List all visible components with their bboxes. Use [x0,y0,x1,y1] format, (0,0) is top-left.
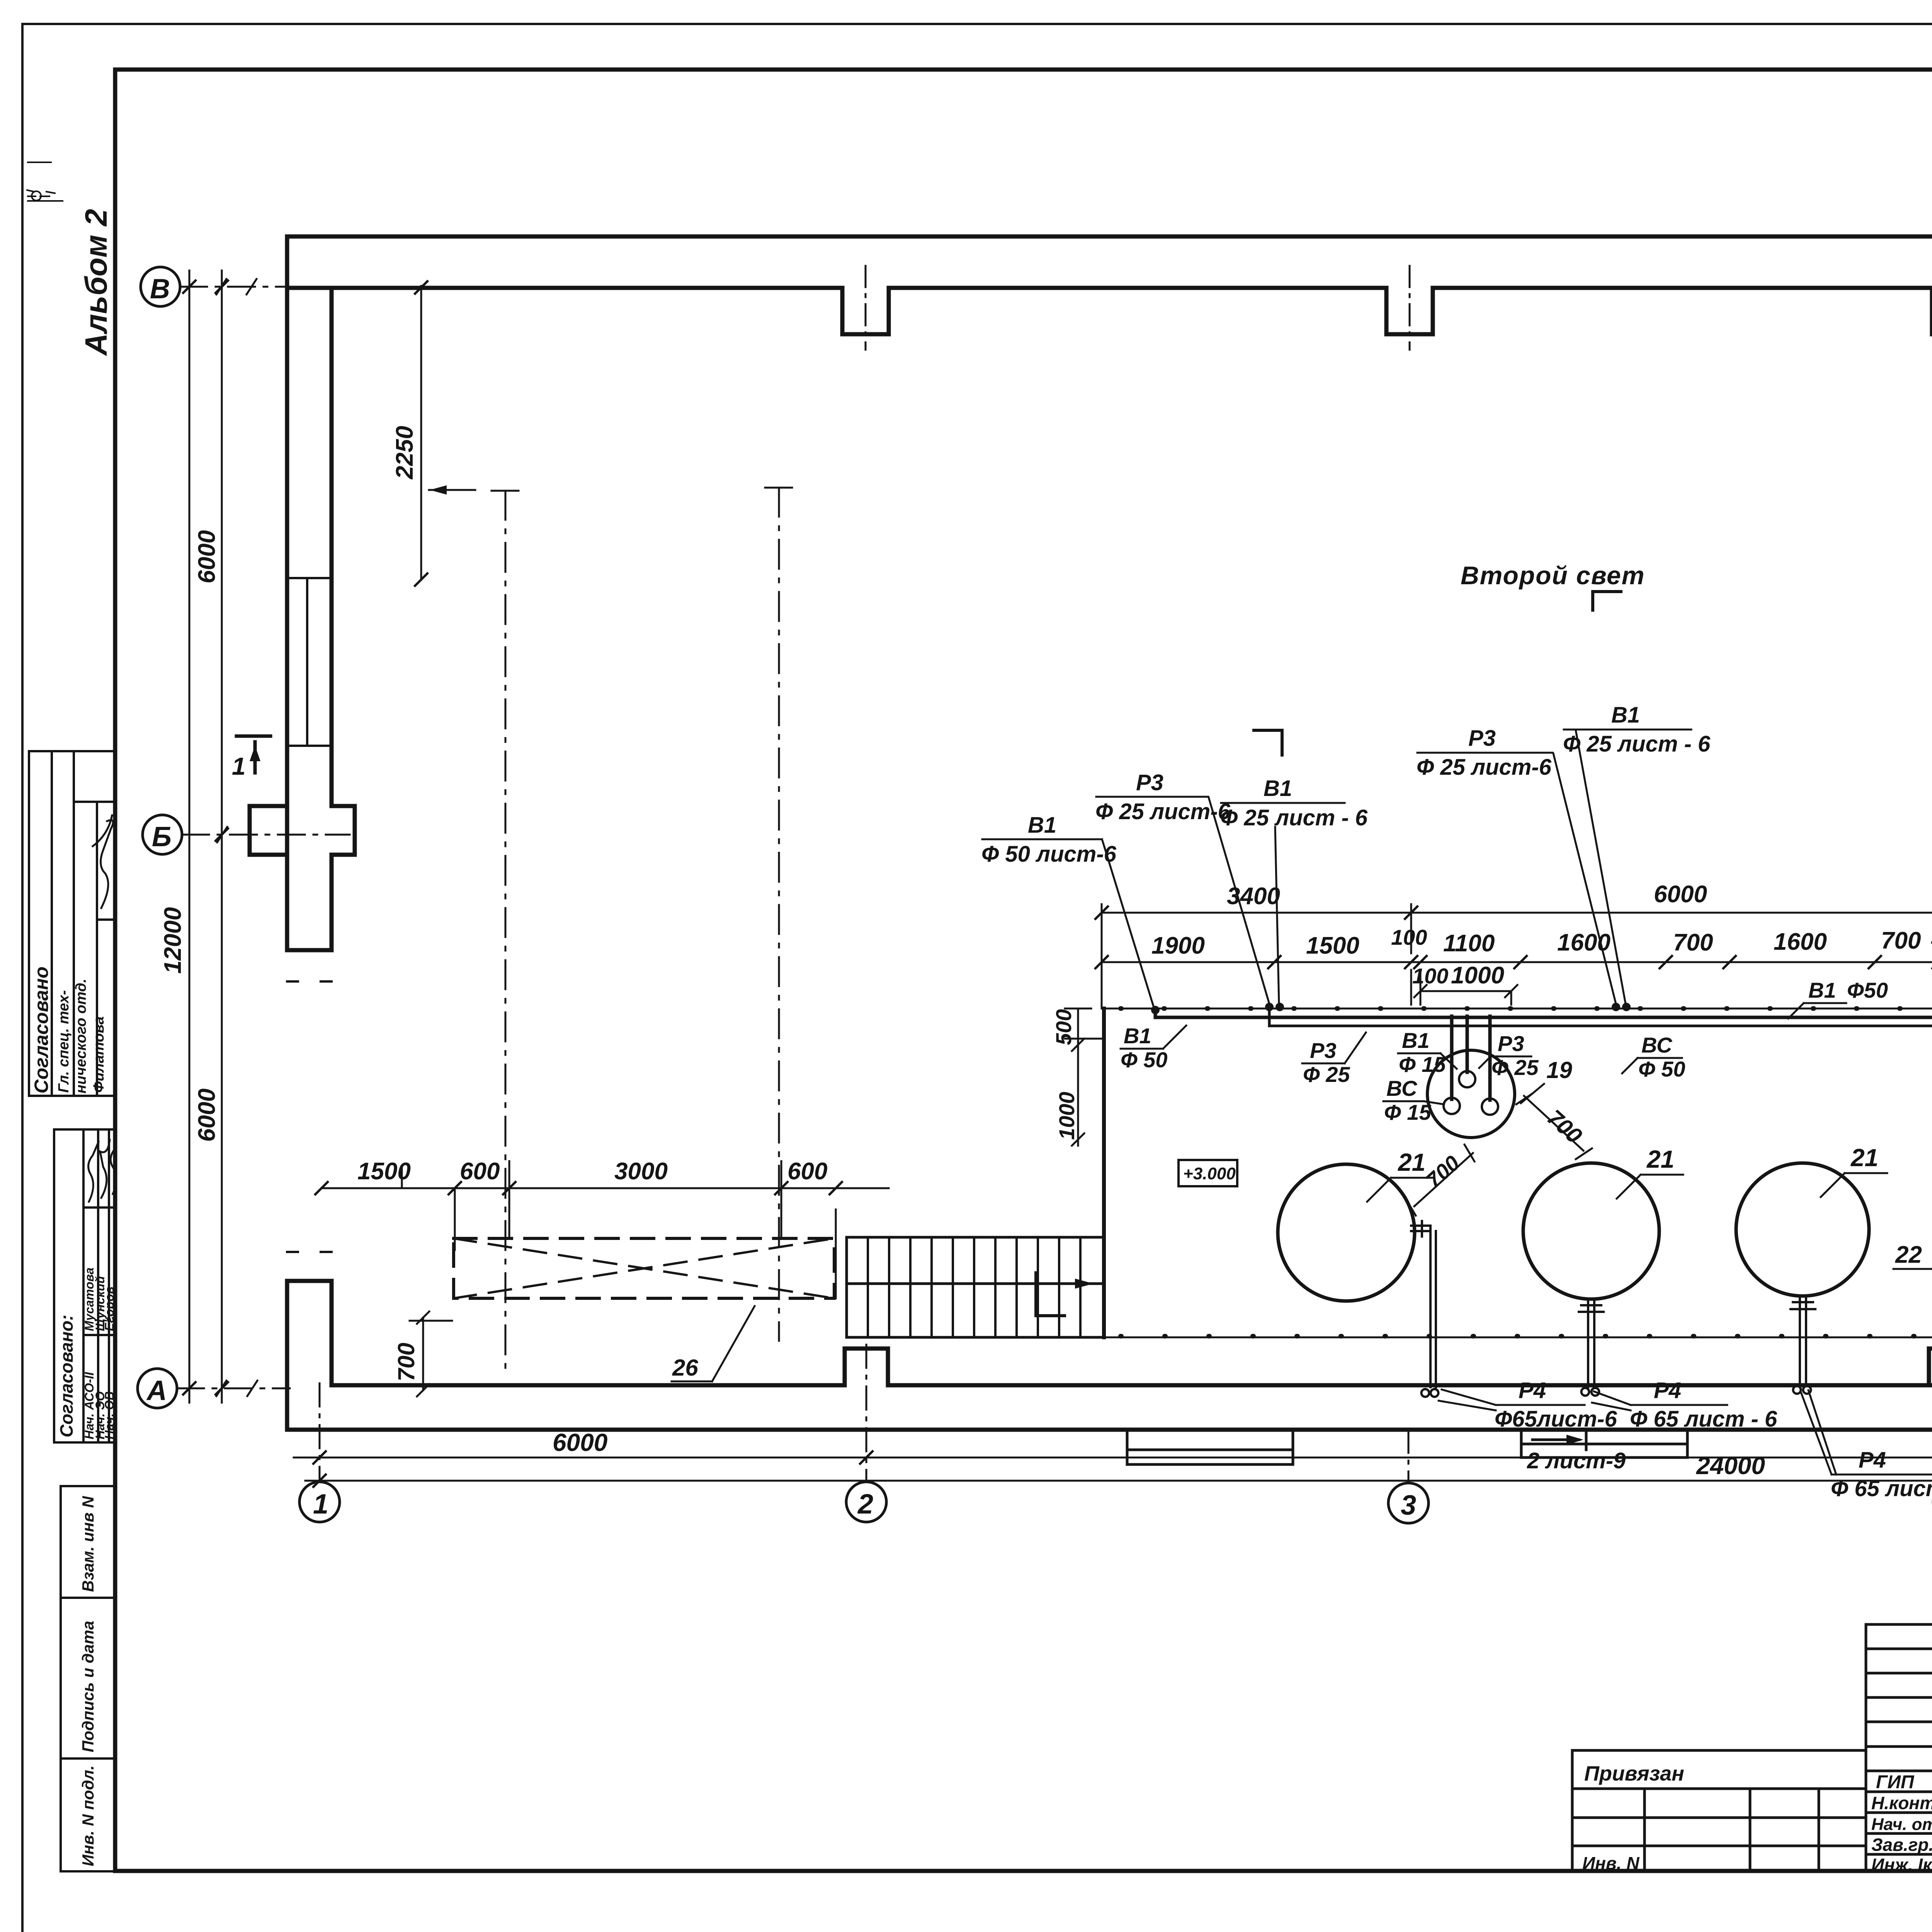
svg-text:Ф 25 лист-6: Ф 25 лист-6 [1417,755,1552,780]
dashed platform 26 [454,1238,834,1298]
tank2 drain pipe [1579,1299,1604,1387]
svg-text:600: 600 [460,1158,500,1185]
svg-text:26: 26 [672,1355,698,1381]
svg-text:Нач. ОВ: Нач. ОВ [102,1391,116,1439]
svg-text:6000: 6000 [194,530,220,583]
svg-text:Ф50: Ф50 [1847,978,1888,1002]
level mark +3.000 [1179,1160,1237,1186]
small left arrow near centerlines [429,489,475,491]
margin stamp table B (Согласовано: Нач...) [54,1129,115,1442]
svg-text:Ф 50: Ф 50 [1121,1048,1168,1072]
svg-text:500: 500 [1051,1009,1076,1045]
svg-text:Ф 65 лист - 6: Ф 65 лист - 6 [1630,1406,1777,1432]
leader pair center [1553,730,1626,1004]
svg-text:1: 1 [313,1489,328,1520]
title block: signature grid [1866,1624,1932,1871]
pipe B1-50 along wall [1155,1009,1932,1017]
svg-text:Согласовано: Согласовано [31,966,52,1094]
axis circle В [141,267,180,306]
svg-text:700: 700 [393,1343,419,1381]
room bottom edge dots [1121,1334,1932,1338]
west pilaster at Б (inner) [332,806,355,855]
signature scribble A [93,815,113,908]
svg-text:700: 700 [1881,927,1921,954]
section mark 1 (left) [236,736,270,773]
svg-text:В1: В1 [1402,1028,1430,1053]
svg-text:Инв. N: Инв. N [1582,1853,1639,1873]
svg-text:нического отд.: нического отд. [73,979,89,1094]
svg-text:Ф65лист-6: Ф65лист-6 [1495,1406,1617,1432]
svg-text:В1: В1 [1028,813,1056,838]
grease trap 19 [1427,1050,1515,1138]
axis circle А [138,1369,177,1408]
pipe P3-25 along wall [1269,1009,1932,1026]
svg-text:Ф 15: Ф 15 [1399,1052,1446,1077]
second-light corner marks [1593,592,1621,610]
bottom axis circle 3 [1388,1483,1429,1523]
north wall outer line [287,235,1932,239]
svg-text:Ф 65 лист- 6: Ф 65 лист- 6 [1831,1476,1932,1501]
svg-text:ВС: ВС [1641,1033,1673,1057]
svg-text:Ф 25 лист - 6: Ф 25 лист - 6 [1563,731,1711,757]
left dim line 6000+6000 [221,270,223,1403]
interior centerline B [778,488,780,1341]
south wall inner line with pilasters [332,1349,1932,1385]
west wall upper [287,236,332,950]
west pilaster at Б (outer) [250,806,287,855]
svg-text:+3.000: +3.000 [1183,1164,1236,1183]
svg-text:2: 2 [857,1489,873,1520]
tank3 drain pipe [1791,1296,1815,1385]
dim row 3 (100 1000) [1411,970,1517,1005]
svg-text:Р3: Р3 [1310,1038,1337,1063]
stairs [847,1237,1104,1337]
svg-text:Нач. отд.: Нач. отд. [1871,1815,1932,1834]
axis line В [180,286,355,288]
margin stamp table A (Согласовано / Гл.спец.тех. отд. Филатова) [29,751,115,1096]
dim row 2 above room [1102,961,1932,963]
opening reveal ticks [287,981,332,1252]
svg-text:1100: 1100 [1443,930,1495,957]
svg-text:1000: 1000 [1451,962,1504,989]
svg-text:Подпись и дата: Подпись и дата [79,1621,97,1752]
svg-text:Р3: Р3 [1136,770,1163,795]
west wall lower [287,1281,332,1430]
svg-text:А: А [146,1375,167,1406]
axis line А [177,1388,290,1389]
svg-text:Егоров: Егоров [102,1286,116,1331]
tank 1 [1278,1164,1415,1301]
axis line Б [182,834,350,836]
dim 700 vertical left [410,1311,452,1396]
svg-text:21: 21 [1646,1145,1674,1173]
south pilaster at axis 4 [1929,1349,1932,1385]
svg-text:Инж. Iк.: Инж. Iк. [1871,1855,1932,1875]
svg-text:Второй свет: Второй свет [1461,561,1645,590]
interior centerline A [505,491,507,1376]
svg-text:Филатова: Филатова [91,1016,107,1093]
svg-text:22: 22 [1895,1242,1922,1268]
svg-text:Ф 25: Ф 25 [1303,1062,1350,1087]
bottom axis circle 1 [299,1482,340,1522]
tank1 drain pipe [1411,1226,1436,1387]
svg-text:Инв. N подл.: Инв. N подл. [79,1765,97,1866]
svg-text:600: 600 [787,1158,827,1185]
room bottom edge line [1104,1009,1932,1337]
svg-text:24000: 24000 [1696,1452,1765,1480]
svg-text:Р3: Р3 [1498,1031,1524,1056]
svg-text:1500: 1500 [357,1158,411,1185]
section mark 2 лист-9 [1532,1430,1586,1450]
svg-text:1: 1 [232,752,246,780]
north wall inner line with pilasters [287,288,1932,334]
svg-text:В: В [150,274,170,304]
svg-text:В1: В1 [1611,702,1640,728]
svg-text:ВС: ВС [1386,1076,1418,1100]
svg-text:1900: 1900 [1151,932,1205,959]
svg-text:Р4: Р4 [1654,1378,1681,1403]
axis circle Б [143,815,182,854]
west wall window [287,578,332,746]
svg-text:1500: 1500 [1306,932,1359,959]
room left wall [1102,1009,1106,1337]
dim row 1 above room [1102,912,1932,914]
svg-text:Н.контр.: Н.контр. [1871,1793,1932,1813]
svg-text:21: 21 [1398,1148,1425,1176]
svg-text:1000: 1000 [1054,1092,1079,1140]
left dim line 12000 [189,270,190,1403]
svg-text:ГИП: ГИП [1876,1772,1915,1793]
dashed platform diagonals [454,1238,834,1298]
porch 2 below south wall [1521,1430,1687,1458]
svg-text:Взам. инв N: Взам. инв N [79,1495,97,1592]
room top edge dots [1121,1006,1932,1011]
porch 1 below south wall [1127,1430,1293,1464]
node dot pipe start [1151,1006,1160,1014]
svg-text:Р4: Р4 [1859,1447,1886,1473]
svg-text:2250: 2250 [391,426,418,480]
north pilaster centerlines [866,266,1932,350]
svg-text:Согласовано:: Согласовано: [56,1315,77,1437]
dim 1500 600 3000 600 [321,1187,889,1189]
signature scribbles B [88,1140,116,1202]
svg-text:2 лист-9: 2 лист-9 [1527,1448,1626,1473]
svg-text:19: 19 [1546,1057,1572,1083]
south wall outer line [287,1428,1932,1432]
svg-text:В1: В1 [1264,776,1292,801]
room top edge line [1102,1008,1932,1010]
svg-text:6000: 6000 [553,1429,607,1456]
svg-text:21: 21 [1850,1144,1878,1172]
svg-text:Р4: Р4 [1519,1378,1546,1403]
title block: Привязан box [1572,1750,1866,1871]
margin scribble [27,162,63,201]
svg-text:Ф 50: Ф 50 [1638,1057,1685,1081]
bottom dim line upper (6000 / 6000) [294,1457,1932,1459]
svg-text:В1: В1 [1808,978,1836,1002]
svg-text:12000: 12000 [160,907,186,974]
svg-text:100: 100 [1412,964,1448,988]
tank 2 [1523,1163,1659,1299]
diag dim 700 (tank1-trap) [1406,1145,1475,1216]
svg-text:Альбом 2: Альбом 2 [79,209,113,356]
svg-text:6000: 6000 [194,1088,220,1142]
bottom axis circle 2 [846,1482,886,1522]
diag dim 700 (trap-tank2) [1516,1094,1592,1159]
svg-text:Ф 25: Ф 25 [1492,1055,1539,1080]
stair treads [868,1237,1080,1337]
bottom dim line lower (24000) [305,1480,1932,1482]
svg-text:Ф 25 лист - 6: Ф 25 лист - 6 [1220,805,1368,830]
svg-text:Ф 50 лист-6: Ф 50 лист-6 [981,842,1117,867]
margin stamp table C (Взам.инв / Подпись и дата / Инв.N подл.) [61,1486,115,1871]
svg-text:1600: 1600 [1774,929,1827,955]
svg-text:Б: Б [152,821,172,852]
svg-text:В1: В1 [1124,1024,1151,1048]
tank 3 [1736,1163,1869,1296]
svg-text:100: 100 [1391,925,1427,949]
svg-text:3000: 3000 [614,1158,668,1185]
svg-text:Гл. спец. тех-: Гл. спец. тех- [56,990,72,1093]
svg-text:Ф 15: Ф 15 [1384,1100,1431,1124]
svg-text:Привязан: Привязан [1584,1762,1684,1785]
svg-text:Р3: Р3 [1468,726,1496,751]
svg-text:6000: 6000 [1654,881,1707,908]
svg-text:3: 3 [1401,1490,1416,1521]
stair arrow [1012,1282,1086,1285]
dim 2250 vertical [420,286,422,580]
risers to trap 19 [1452,1016,1490,1100]
dim 500/1000 room left [1065,1009,1104,1146]
leader pair to wall pipes [1209,798,1279,1004]
svg-text:700: 700 [1673,929,1713,956]
dim 600 (room left) [785,1195,889,1196]
svg-text:Зав.гр.: Зав.гр. [1871,1835,1932,1855]
